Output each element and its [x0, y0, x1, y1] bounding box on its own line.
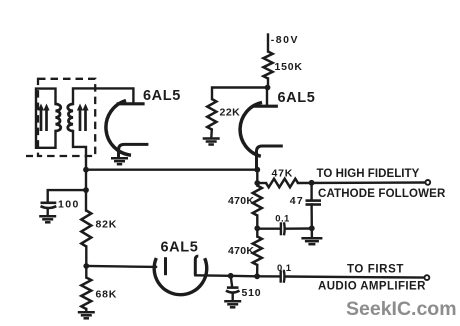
- wire output to first audio amplifier: [286, 277, 426, 278]
- ground under 47pF: [301, 238, 322, 244]
- node chain/bus junction: [254, 273, 260, 279]
- watermark SeekIC.com: [346, 298, 457, 320]
- capacitor C 100: [41, 203, 57, 216]
- ground under 68K: [78, 312, 95, 318]
- node 0.1a junction: [309, 225, 315, 231]
- label AUDIO AMPLIFIER: [318, 281, 426, 293]
- label 47: [290, 195, 304, 207]
- label TO HIGH FIDELITY: [317, 168, 420, 180]
- label 47K: [272, 168, 294, 180]
- ground under 510: [224, 301, 241, 307]
- svg-text:510: 510: [242, 287, 262, 299]
- svg-text:0.1: 0.1: [275, 214, 290, 225]
- label 510: [242, 287, 262, 299]
- resistor R 150K: [263, 52, 272, 79]
- transformer T1 primary loop wire: [36, 89, 56, 148]
- node bottom-left junction: [83, 263, 89, 269]
- label 470K lower: [228, 245, 254, 257]
- op tube V1 6AL5 plate bar: [117, 102, 145, 105]
- wire top bus: [86, 168, 257, 170]
- label 68K: [96, 289, 118, 301]
- wire 150K bottom to node: [267, 79, 269, 88]
- node bus left junction: [83, 167, 89, 173]
- svg-text:TO FIRST: TO FIRST: [347, 263, 404, 275]
- resistor R 22K: [207, 99, 216, 130]
- capacitor C 510: [226, 288, 240, 301]
- transformer T1 primary tuning arrows: [38, 104, 50, 132]
- svg-text:22K: 22K: [220, 107, 241, 119]
- wire 47pF top lead: [310, 183, 312, 200]
- tube V1 cathode: [119, 144, 149, 157]
- resistor R 68K: [81, 278, 91, 310]
- wire bottom-left to V3: [86, 265, 156, 268]
- ground under 22K: [203, 139, 220, 145]
- wire 510 top lead: [231, 276, 233, 287]
- svg-text:-80V: -80V: [271, 34, 299, 46]
- tube V2 6AL5 plate bar: [252, 105, 278, 108]
- capacitor C 0.1b: [281, 270, 285, 282]
- svg-text:47K: 47K: [272, 168, 294, 180]
- svg-text:SeekIC.com: SeekIC.com: [346, 298, 457, 320]
- wire 47K branch left stub: [257, 182, 266, 184]
- svg-text:CATHODE FOLLOWER: CATHODE FOLLOWER: [318, 188, 446, 200]
- wire 470K lower to bottom bus: [256, 265, 259, 276]
- tube V2 cathode: [257, 146, 283, 170]
- wire V3 right output: [195, 275, 279, 276]
- label 6AL5 V2: [278, 90, 316, 106]
- svg-text:6AL5: 6AL5: [161, 240, 199, 256]
- svg-text:68K: 68K: [96, 289, 118, 301]
- svg-text:AUDIO AMPLIFIER: AUDIO AMPLIFIER: [318, 281, 426, 293]
- capacitor C 47: [306, 201, 322, 205]
- resistor R 470K lower: [253, 237, 262, 266]
- label 0.1a: [275, 214, 290, 225]
- wire 68K bottom lead: [85, 309, 87, 312]
- label -80V: [271, 34, 299, 46]
- label TO FIRST: [347, 263, 404, 275]
- label 150K: [275, 61, 303, 73]
- resistor R 47K: [266, 179, 298, 188]
- tube V3 plate left: [164, 257, 167, 275]
- wire chain V2 cathode to 470K: [256, 170, 258, 186]
- node 510 junction: [228, 273, 234, 279]
- transformer T1 primary winding coil: [56, 104, 61, 131]
- wire 47pF bottom lead: [310, 205, 313, 229]
- wire 82K to 68K: [85, 247, 87, 278]
- svg-text:150K: 150K: [275, 61, 303, 73]
- node 47K branch: [254, 180, 260, 186]
- ground under V1 cathode: [111, 158, 128, 164]
- wire between 470Ks: [256, 216, 258, 237]
- svg-text:6AL5: 6AL5: [278, 90, 316, 106]
- ground under 100: [39, 216, 56, 222]
- node 100pF branch: [83, 187, 89, 193]
- node bus right junction: [254, 167, 260, 173]
- svg-text:0.1: 0.1: [277, 263, 292, 274]
- wire 47K to output: [298, 181, 426, 184]
- label 6AL5 V3: [161, 240, 199, 256]
- transformer shield dashed box: [26, 79, 95, 156]
- tube V1 envelope: [106, 101, 131, 156]
- tube V2 envelope: [240, 102, 262, 156]
- node 47pF branch: [309, 180, 315, 186]
- transformer T1 secondary winding coil: [68, 104, 73, 131]
- label 470K upper: [228, 195, 254, 207]
- label 0.1b: [277, 263, 292, 274]
- wire to ground stub: [311, 228, 314, 237]
- label 82K: [96, 219, 118, 231]
- tube V3 plate right: [195, 256, 198, 275]
- label 22K: [220, 107, 241, 119]
- wire 0.1a right lead: [286, 227, 312, 230]
- svg-text:82K: 82K: [96, 219, 118, 231]
- label 6AL5 V1: [143, 88, 181, 104]
- transformer T1 secondary tuning arrows: [77, 104, 89, 132]
- svg-text:470K: 470K: [228, 195, 254, 207]
- capacitor C 0.1a: [281, 222, 285, 235]
- tube V3 envelope: [154, 258, 207, 295]
- resistor R 82K: [81, 211, 91, 247]
- wire left chain vertical: [85, 170, 87, 211]
- wire 22K bottom lead: [210, 130, 213, 138]
- node 0.1a left junction: [254, 225, 260, 231]
- node junction 150K/22K/plate V2: [265, 85, 271, 91]
- wire secondary top to V1 plate: [73, 88, 133, 104]
- wire to capacitor 100: [48, 190, 86, 202]
- terminal output 2: [425, 275, 430, 280]
- svg-text:TO HIGH FIDELITY: TO HIGH FIDELITY: [317, 168, 420, 180]
- svg-text:6AL5: 6AL5: [143, 88, 181, 104]
- svg-text:100: 100: [58, 199, 80, 211]
- label CATHODE FOLLOWER: [318, 188, 446, 200]
- resistor R 470K upper: [253, 186, 262, 216]
- label 100: [58, 199, 80, 211]
- wire V2 plate lead: [266, 88, 268, 105]
- svg-text:47: 47: [290, 195, 304, 207]
- svg-text:470K: 470K: [228, 245, 254, 257]
- wire secondary bottom to bus: [73, 131, 86, 170]
- wire node to 22K top: [212, 88, 268, 100]
- wire 0.1a left lead: [257, 227, 279, 229]
- wire -80V supply lead: [267, 35, 269, 52]
- terminal output 1: [425, 180, 430, 185]
